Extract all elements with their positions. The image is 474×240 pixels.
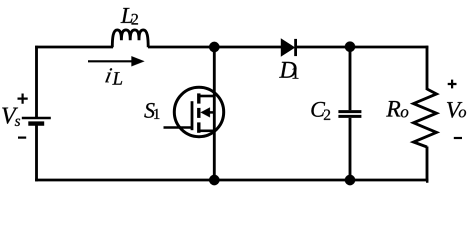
inductor L2 bbox=[112, 30, 148, 47]
label S1 letter S bbox=[144, 103, 154, 118]
label L2 letter L bbox=[121, 8, 133, 23]
label iL letter i bbox=[105, 68, 112, 82]
capacitor C2 wire lower bbox=[349, 118, 352, 180]
label D1 letter D bbox=[279, 62, 296, 78]
battery Vs plate short bbox=[28, 121, 44, 125]
capacitor C2 plate bottom bbox=[338, 115, 361, 118]
wire bottom bbox=[35, 179, 428, 182]
label Ro sub o bbox=[401, 109, 408, 117]
wire left vertical lower bbox=[35, 124, 38, 182]
transistor S1 channel segment top bbox=[197, 93, 200, 103]
label + (output) bbox=[448, 80, 457, 89]
node bottom drain bbox=[209, 175, 219, 185]
label L2 sub 2 bbox=[132, 14, 138, 25]
label S1 sub 1 bbox=[154, 109, 159, 119]
label minus (output) bbox=[454, 137, 462, 139]
label D1 sub 1 bbox=[292, 67, 298, 78]
label C2 sub 2 bbox=[324, 110, 330, 120]
label Ro letter R bbox=[386, 101, 400, 116]
wire top-right (D1 to corner) bbox=[296, 46, 429, 49]
transistor S1 source lead bbox=[199, 130, 214, 133]
transistor S1 channel segment middle bbox=[197, 108, 200, 118]
transistor S1 body circle bbox=[174, 87, 223, 136]
transistor S1 gate bar bbox=[191, 101, 194, 130]
wire top-mid (L2 to D1) bbox=[148, 46, 282, 49]
wire top-left (Vs to L2) bbox=[35, 46, 113, 49]
transistor S1 gate lead bbox=[164, 126, 193, 129]
node bottom capacitor bbox=[345, 175, 355, 185]
wire MOSFET drain-source vertical bbox=[213, 47, 216, 180]
label Vs sub s bbox=[15, 119, 20, 126]
node top capacitor bbox=[345, 42, 355, 52]
label Vo sub o bbox=[459, 110, 466, 118]
wire left vertical upper bbox=[35, 46, 38, 117]
label iL sub L bbox=[112, 72, 122, 84]
label minus (battery) bbox=[18, 137, 26, 139]
label Vo letter V bbox=[447, 102, 462, 118]
diode D1 bbox=[281, 39, 294, 56]
capacitor C2 plate top bbox=[338, 110, 361, 113]
transistor S1 channel segment bottom bbox=[197, 122, 200, 132]
resistor Ro zigzag bbox=[414, 89, 437, 147]
transistor S1 body arrow bbox=[208, 111, 214, 114]
label + (battery) bbox=[18, 94, 28, 104]
label C2 letter C bbox=[311, 102, 325, 117]
node top drain bbox=[209, 42, 219, 52]
arrow iL bbox=[88, 60, 133, 62]
wire right vertical upper bbox=[426, 46, 429, 90]
wire right vertical lower bbox=[426, 147, 427, 182]
label Vs letter V bbox=[2, 108, 18, 124]
capacitor C2 wire upper bbox=[349, 47, 352, 110]
transistor S1 drain lead bbox=[199, 95, 214, 98]
battery Vs plate long bbox=[22, 117, 51, 120]
